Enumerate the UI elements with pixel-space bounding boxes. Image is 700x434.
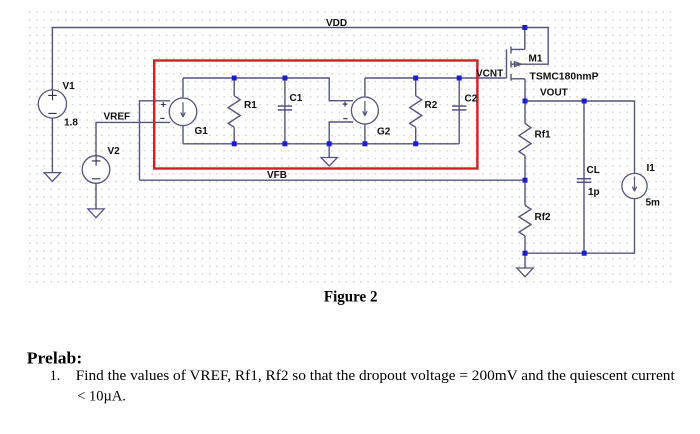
svg-text:R2: R2 <box>425 100 438 111</box>
svg-text:V1: V1 <box>63 81 76 92</box>
svg-text:I1: I1 <box>647 163 656 174</box>
svg-text:Figure 2: Figure 2 <box>324 288 378 306</box>
svg-text:5m: 5m <box>646 197 661 208</box>
svg-text:G1: G1 <box>195 126 209 137</box>
svg-text:C2: C2 <box>465 94 478 105</box>
svg-text:Rf1: Rf1 <box>535 130 552 141</box>
svg-text:V2: V2 <box>108 146 121 157</box>
svg-text:CL: CL <box>587 165 600 176</box>
svg-text:Find the values of VREF, Rf1,: Find the values of VREF, Rf1, Rf2 so tha… <box>76 367 675 384</box>
svg-text:Rf2: Rf2 <box>535 212 552 223</box>
svg-text:1p: 1p <box>588 187 600 198</box>
svg-text:1.: 1. <box>50 367 60 384</box>
svg-text:VREF: VREF <box>104 112 131 123</box>
svg-text:VOUT: VOUT <box>540 88 568 99</box>
svg-text:TSMC180nmP: TSMC180nmP <box>530 71 599 82</box>
svg-text:M1: M1 <box>529 53 543 64</box>
svg-text:< 10µA.: < 10µA. <box>77 388 126 405</box>
svg-text:R1: R1 <box>244 100 257 111</box>
svg-text:VFB: VFB <box>267 170 287 181</box>
svg-text:Prelab:: Prelab: <box>27 350 82 368</box>
svg-text:1.8: 1.8 <box>64 118 78 129</box>
svg-text:VDD: VDD <box>326 18 347 29</box>
svg-text:C1: C1 <box>290 93 303 104</box>
svg-text:VCNT: VCNT <box>476 68 503 79</box>
svg-text:G2: G2 <box>377 127 391 138</box>
